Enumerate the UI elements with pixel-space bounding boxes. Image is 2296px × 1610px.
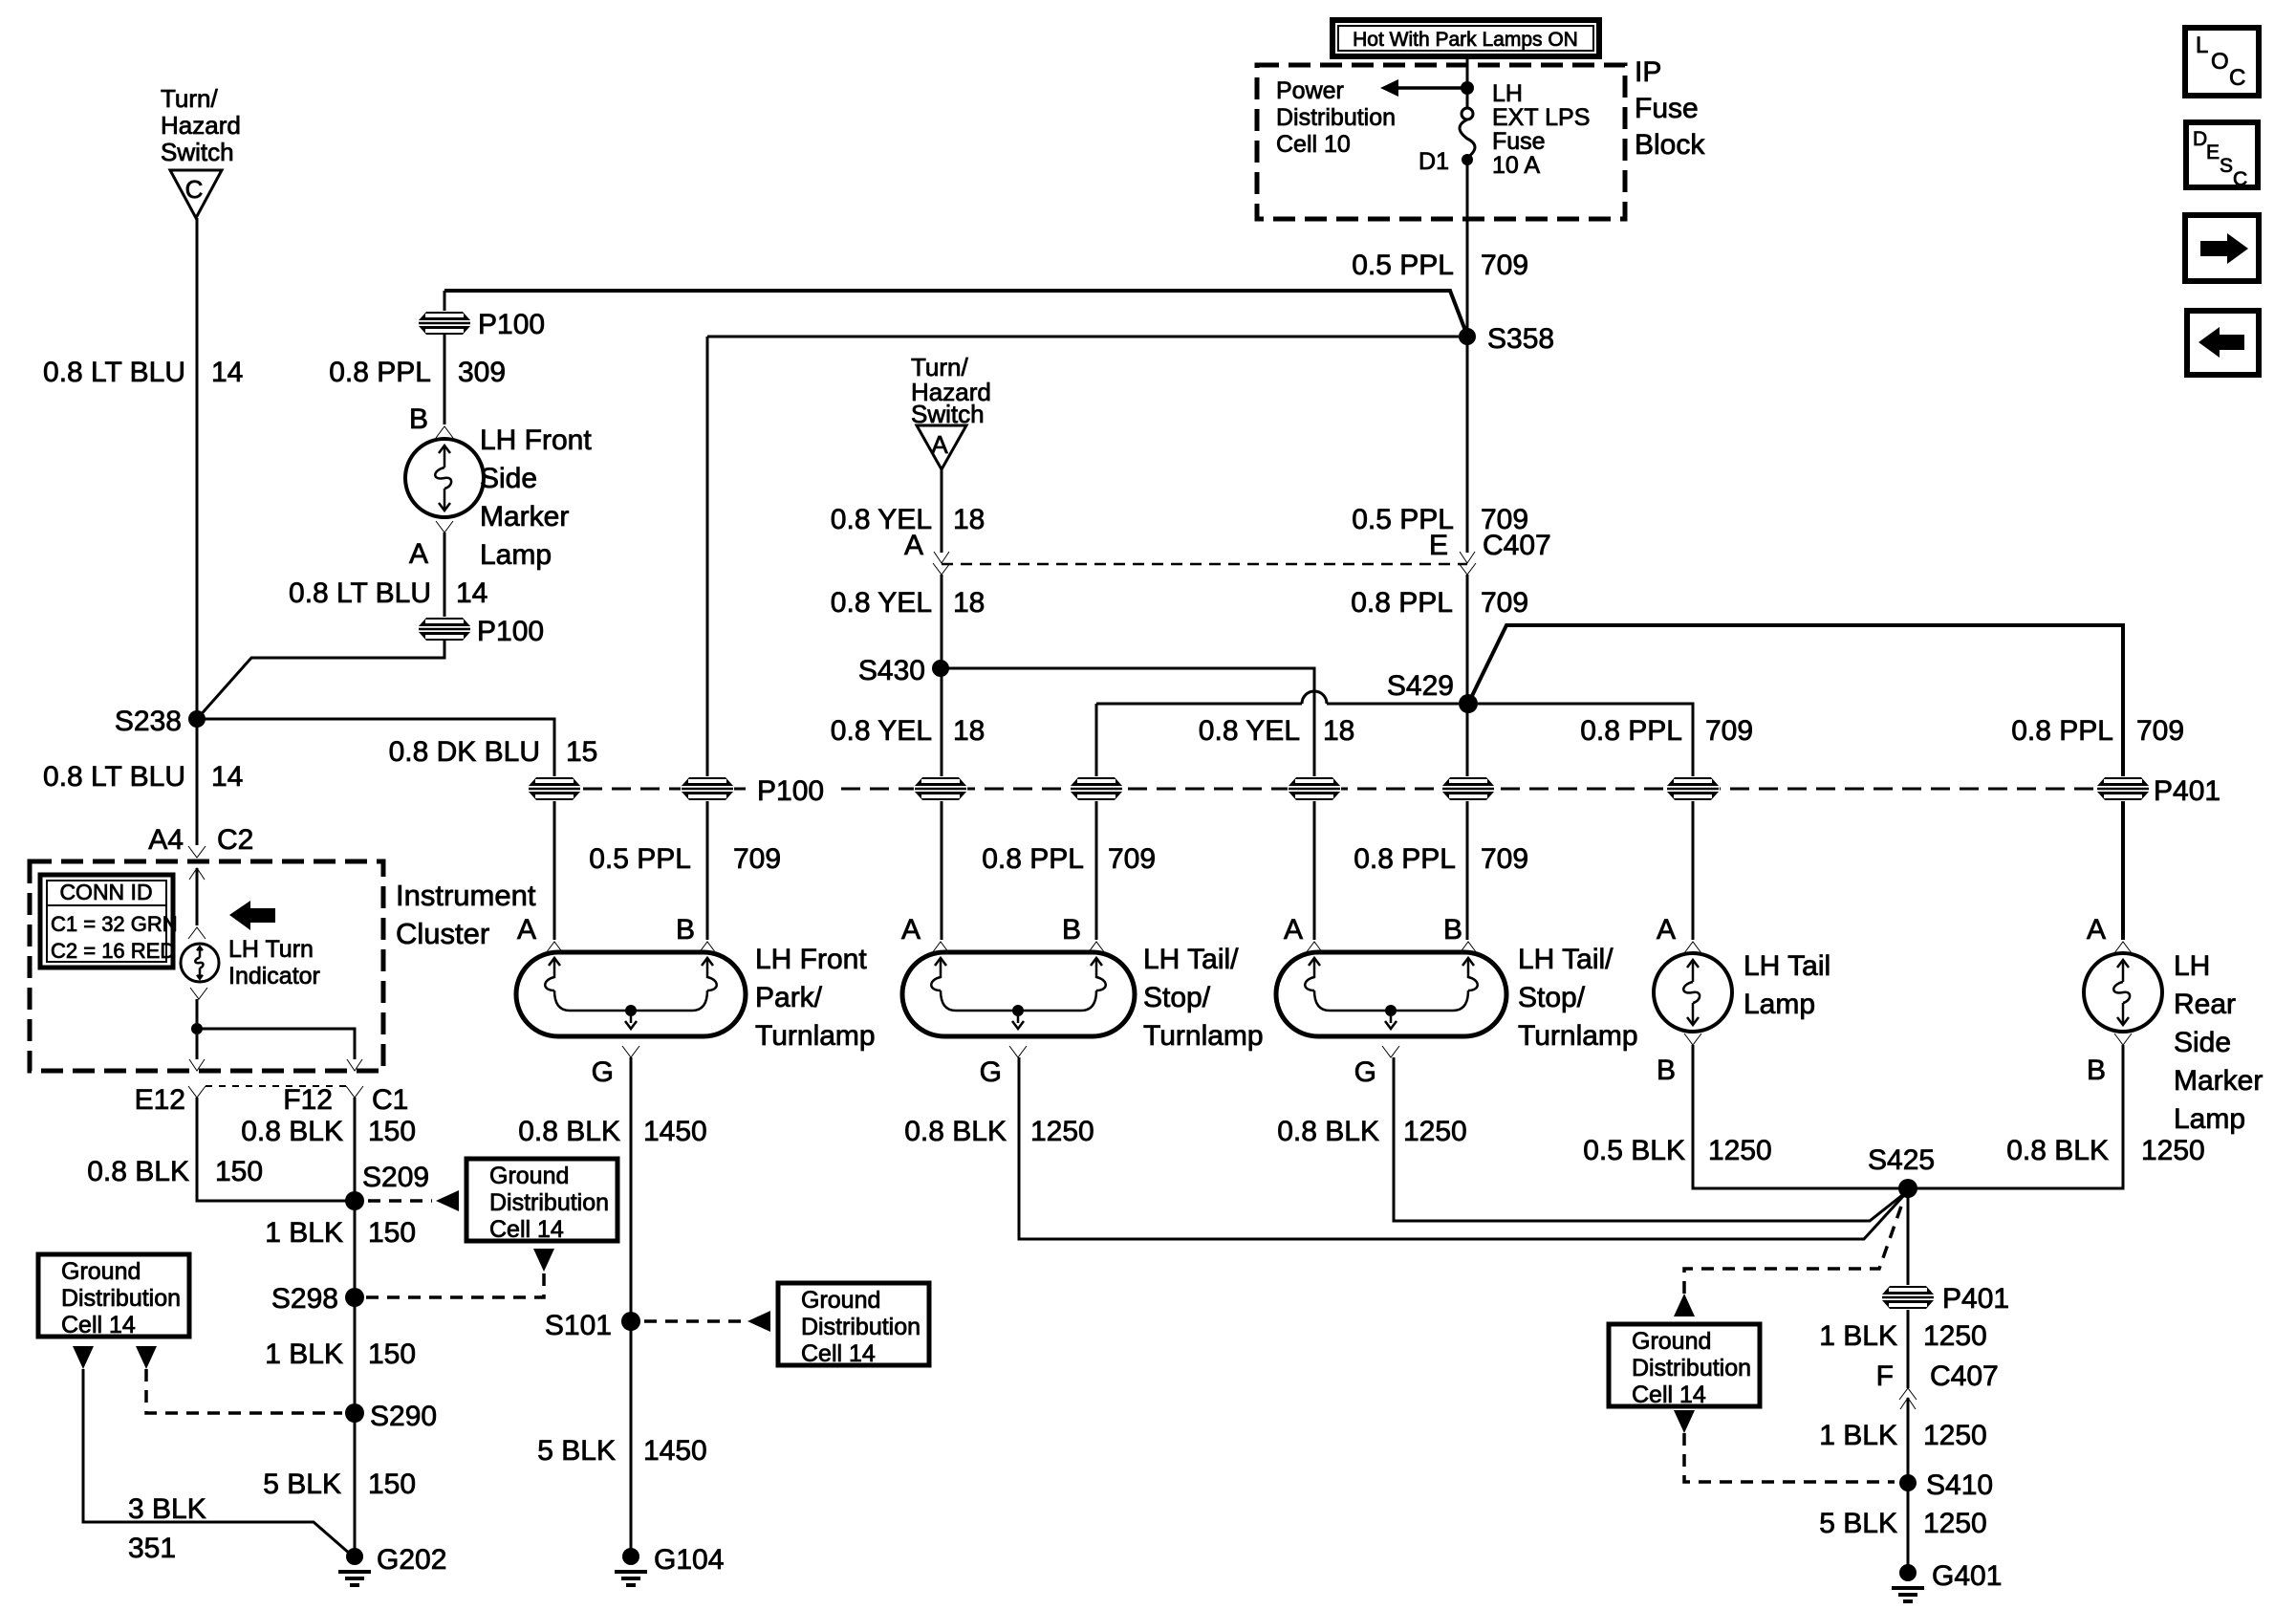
svg-text:D1: D1 xyxy=(1419,148,1449,175)
svg-text:E: E xyxy=(2206,141,2220,163)
label LH Front Park/Turnlamp xyxy=(755,944,876,1052)
svg-text:Cell 14: Cell 14 xyxy=(801,1340,876,1367)
svg-text:Indicator: Indicator xyxy=(228,963,320,990)
label 5 BLK 150 xyxy=(263,1469,416,1500)
node splice S101 xyxy=(621,1312,640,1331)
box Ground Distribution Cell 14 (center) xyxy=(778,1283,929,1367)
svg-text:Stop/: Stop/ xyxy=(1518,982,1586,1013)
connector grommet on YEL wire (lamp2 A) xyxy=(914,776,967,801)
label LH Turn Indicator xyxy=(228,936,320,990)
pin mark above LH Turn Indicator xyxy=(188,927,206,939)
svg-text:1 BLK: 1 BLK xyxy=(1819,1320,1897,1352)
label 0.8 LT BLU 14 (upper) xyxy=(43,357,243,388)
label 0.8 DK BLU 15 xyxy=(389,736,598,768)
svg-text:S209: S209 xyxy=(362,1162,429,1193)
svg-text:Turn/: Turn/ xyxy=(161,84,218,113)
arrow (left, inside cluster) xyxy=(229,901,275,930)
label P100 (on dashed line) xyxy=(753,775,832,807)
svg-text:0.5 PPL: 0.5 PPL xyxy=(589,843,691,875)
svg-text:Distribution: Distribution xyxy=(61,1285,181,1312)
svg-text:Ground: Ground xyxy=(489,1163,569,1189)
svg-text:Cell 10: Cell 10 xyxy=(1276,131,1351,158)
wire 0.8 BLK 1450 from LH Front Park/Turnlamp G to G104 xyxy=(630,1057,633,1556)
component Turn/Hazard Switch terminal A (triangle) xyxy=(917,425,966,469)
svg-text:S: S xyxy=(2220,155,2233,177)
connector C1 (fine dashed line under cluster) xyxy=(206,1085,346,1087)
svg-text:Lamp: Lamp xyxy=(1744,989,1815,1020)
label LH Tail/Stop/Turnlamp (second) xyxy=(1518,944,1638,1052)
label 0.8 YEL 18 (S430 branch lower) xyxy=(831,715,986,747)
svg-text:0.8 LT BLU: 0.8 LT BLU xyxy=(43,357,185,388)
wire 0.5 PPL 709 from S358 to connector C407 pin E xyxy=(1466,337,1469,553)
svg-text:0.5 PPL: 0.5 PPL xyxy=(1352,250,1454,281)
svg-text:S425: S425 xyxy=(1868,1144,1935,1176)
svg-text:B: B xyxy=(676,914,695,946)
label 0.8 BLK 1250 (lamp3 G) xyxy=(1277,1116,1467,1147)
wire 0.8 DK BLU 15 from S238 to LH Front Park/Turnlamp A xyxy=(197,719,554,940)
wire hop over YEL wire (no connection) xyxy=(1302,691,1327,704)
svg-text:150: 150 xyxy=(368,1469,416,1500)
svg-text:B: B xyxy=(1443,914,1462,946)
svg-text:14: 14 xyxy=(211,761,243,793)
svg-text:1250: 1250 xyxy=(2141,1135,2205,1166)
svg-text:150: 150 xyxy=(368,1217,416,1249)
svg-text:LH Turn: LH Turn xyxy=(228,936,314,963)
label LH Tail Lamp xyxy=(1744,950,1830,1020)
wire 0.8 PPL 709 from C407 E to splice S429 xyxy=(1466,575,1469,940)
label 0.5 PPL 709 (lamp1 B) xyxy=(589,843,781,875)
lamp LH Front Side Marker Lamp xyxy=(405,439,484,517)
label 0.8 BLK 150 (E12) xyxy=(87,1156,263,1187)
label 1 BLK 1250 (above C407 F) xyxy=(1819,1320,1986,1352)
svg-text:Cell 14: Cell 14 xyxy=(1632,1382,1706,1408)
node splice S430 xyxy=(932,660,949,677)
connector C407 (dashed in-line connector) xyxy=(942,563,1467,566)
arrow up from right Ground Distribution box to S425 leader xyxy=(1674,1294,1695,1316)
svg-text:14: 14 xyxy=(211,357,243,388)
svg-text:1 BLK: 1 BLK xyxy=(265,1217,343,1249)
wire 0.8 BLK 150 from F12 to S209 xyxy=(354,1098,357,1556)
label LH Tail/Stop/Turnlamp (first) xyxy=(1143,944,1264,1052)
connector P401 grommet on PPL wire (rear marker A) xyxy=(2096,776,2150,801)
svg-text:Marker: Marker xyxy=(480,501,569,533)
svg-text:1 BLK: 1 BLK xyxy=(265,1338,343,1370)
svg-text:Ground: Ground xyxy=(801,1287,880,1314)
leader dashed from box up to S425 xyxy=(1684,1201,1903,1294)
wire 0.8 BLK 150 from E12 to S209 xyxy=(197,1098,346,1201)
svg-text:LH: LH xyxy=(2174,950,2210,982)
svg-text:Hot With Park Lamps ON: Hot With Park Lamps ON xyxy=(1353,29,1578,51)
svg-text:S290: S290 xyxy=(370,1401,437,1432)
svg-text:5 BLK: 5 BLK xyxy=(263,1469,341,1500)
svg-text:Block: Block xyxy=(1635,129,1705,161)
svg-text:Turnlamp: Turnlamp xyxy=(755,1020,876,1052)
svg-text:S430: S430 xyxy=(858,655,925,686)
svg-text:709: 709 xyxy=(733,843,781,875)
label 0.8 PPL 709 (below C407) xyxy=(1351,587,1528,619)
lamp LH Tail/Stop/Turnlamp (first) xyxy=(902,942,1135,1057)
arrow to Power Distribution Cell 10 xyxy=(1380,79,1467,97)
wire 0.8 YEL 18 from C407 A to splice S430 xyxy=(941,575,943,940)
lamp LH Front Park/Turnlamp (dual filament) xyxy=(516,942,746,1057)
svg-text:Cell 14: Cell 14 xyxy=(489,1216,564,1243)
svg-text:P100: P100 xyxy=(478,309,545,340)
svg-text:LH Tail/: LH Tail/ xyxy=(1143,944,1239,975)
svg-text:0.8 DK BLU: 0.8 DK BLU xyxy=(389,736,540,768)
leader dashed from box to S290 xyxy=(146,1369,342,1413)
wire 0.5 PPL 709 from fuse D1 to S358 xyxy=(1466,160,1469,337)
svg-text:A: A xyxy=(904,530,923,561)
svg-text:0.8 LT BLU: 0.8 LT BLU xyxy=(43,761,185,793)
svg-text:G: G xyxy=(592,1056,614,1088)
svg-text:Distribution: Distribution xyxy=(801,1314,921,1340)
pin mark below LH Turn Indicator xyxy=(190,988,207,999)
lamp LH Rear Side Marker Lamp xyxy=(2084,953,2162,1032)
wire 0.8 YEL 18 branch from S430 to LH Tail/Stop/Turnlamp(2) A xyxy=(941,668,1314,940)
svg-text:709: 709 xyxy=(1481,843,1528,875)
svg-text:D: D xyxy=(2193,128,2207,150)
svg-text:F: F xyxy=(1876,1360,1894,1392)
svg-text:B: B xyxy=(1657,1055,1676,1086)
wire 0.5 PPL 709 feeder from S358 to P100 (heavy top line) xyxy=(444,291,1467,336)
svg-text:14: 14 xyxy=(456,577,487,609)
svg-text:C407: C407 xyxy=(1930,1360,1999,1392)
svg-text:1250: 1250 xyxy=(1923,1508,1987,1539)
svg-text:150: 150 xyxy=(215,1156,263,1187)
box Ground Distribution Cell 14 (upper) xyxy=(466,1159,617,1243)
label LH Front Side Marker Lamp xyxy=(480,424,592,571)
label 0.8 PPL 709 (S429 right branch) xyxy=(1580,715,1753,747)
wire 0.8 PPL 709 from S429 diagonal to LH Rear Side Marker A xyxy=(1468,625,2123,940)
svg-text:Side: Side xyxy=(2174,1027,2231,1058)
label 5 BLK 1450 xyxy=(537,1435,706,1467)
component Turn/Hazard Switch terminal C (triangle) xyxy=(170,170,222,218)
wire 1 BLK 1250 from S425 to P401 xyxy=(1907,1188,1910,1388)
connector P401 grommet on ground wire xyxy=(1881,1285,1935,1310)
svg-text:Marker: Marker xyxy=(2174,1065,2263,1097)
label 5 BLK 1250 xyxy=(1819,1508,1986,1539)
svg-text:LH Tail/: LH Tail/ xyxy=(1518,944,1614,975)
label 0.5 PPL 709 (above C407) xyxy=(1352,504,1528,535)
svg-text:P401: P401 xyxy=(1942,1283,2009,1315)
svg-text:0.8 BLK: 0.8 BLK xyxy=(2006,1135,2109,1166)
svg-text:C: C xyxy=(2233,168,2247,190)
arrow to Ground Distribution Cell 14 (S101) xyxy=(747,1311,770,1332)
svg-text:S410: S410 xyxy=(1926,1469,1993,1501)
svg-text:CONN ID: CONN ID xyxy=(59,880,152,904)
pin mark C2/A4 at cluster connector xyxy=(188,846,206,858)
svg-text:C1: C1 xyxy=(372,1084,408,1116)
svg-text:0.8 BLK: 0.8 BLK xyxy=(87,1156,189,1187)
svg-text:0.8 PPL: 0.8 PPL xyxy=(1580,715,1682,747)
label LH EXT LPS Fuse 10 A xyxy=(1492,80,1590,179)
wire 0.5 BLK 1250 from LH Tail Lamp B to S425 and 0.8 BLK 1250 from rear marker B xyxy=(1693,1045,2123,1188)
ground G401 xyxy=(1892,1564,1924,1601)
label 0.8 YEL 18 (middle branch) xyxy=(1199,715,1355,747)
lamp LH Turn Indicator xyxy=(181,944,219,982)
connector P100 (grommet, LH front harness pass-through) xyxy=(418,311,471,336)
wire 0.8 BLK 1250 from lamp2 G to S425 xyxy=(1019,1057,1905,1239)
svg-text:G: G xyxy=(980,1056,1002,1088)
pin mark A (LH Front Side Marker Lamp) xyxy=(436,521,453,533)
box Ground Distribution Cell 14 (left) xyxy=(38,1254,189,1338)
svg-text:Ground: Ground xyxy=(61,1258,141,1285)
svg-text:C: C xyxy=(2229,65,2245,91)
svg-text:18: 18 xyxy=(953,504,985,535)
svg-text:1 BLK: 1 BLK xyxy=(1819,1420,1897,1451)
svg-text:0.8 BLK: 0.8 BLK xyxy=(1277,1116,1379,1147)
pin mark B (LH Tail Lamp) xyxy=(1684,1033,1701,1045)
svg-text:C1 = 32 GRN: C1 = 32 GRN xyxy=(51,912,178,936)
box arrow left (navigation) xyxy=(2187,311,2259,375)
svg-text:709: 709 xyxy=(1108,843,1156,875)
label Turn/Hazard Switch (A) xyxy=(911,353,991,428)
label 0.8 PPL 709 (lamp2 B) xyxy=(982,843,1156,875)
svg-text:18: 18 xyxy=(1323,715,1354,747)
svg-text:P100: P100 xyxy=(757,775,824,807)
wire 0.8 LT BLU 14 from P100 down to splice S238 xyxy=(198,641,444,718)
svg-text:G104: G104 xyxy=(654,1544,724,1576)
label 0.8 LT BLU 14 (marker lamp) xyxy=(289,577,487,609)
svg-text:5 BLK: 5 BLK xyxy=(537,1435,616,1467)
svg-text:5 BLK: 5 BLK xyxy=(1819,1508,1897,1539)
arrow from left Ground Distribution box (S290 leader) xyxy=(136,1346,157,1369)
svg-text:Cluster: Cluster xyxy=(396,917,489,950)
label 0.8 PPL 709 (far right branch) xyxy=(2011,715,2184,747)
wire lamp1 B feeder (0.5 PPL 709) xyxy=(706,337,709,940)
lamp LH Tail/Stop/Turnlamp (second) xyxy=(1276,942,1506,1057)
svg-text:F12: F12 xyxy=(283,1084,333,1116)
label 0.5 BLK 1250 xyxy=(1583,1135,1772,1166)
svg-text:1250: 1250 xyxy=(1403,1116,1467,1147)
label 1 BLK 1250 (below C407 F) xyxy=(1819,1420,1986,1451)
wire 3 BLK 351 to G202 xyxy=(83,1369,351,1555)
svg-text:709: 709 xyxy=(1481,587,1528,619)
label Instrument Cluster xyxy=(396,879,536,950)
wire 0.8 BLK 1250 from lamp3 G to S425 xyxy=(1394,1057,1906,1221)
label 0.8 BLK 150 (F12) xyxy=(241,1116,416,1147)
arrow down from right Ground Distribution box to S410 leader xyxy=(1674,1410,1695,1433)
svg-text:C2 = 16 RED: C2 = 16 RED xyxy=(51,939,175,963)
arrow to Ground Distribution Cell 14 (S209) xyxy=(436,1190,459,1211)
leader dashed from S209 to Ground Distribution box xyxy=(368,1199,432,1203)
svg-text:1250: 1250 xyxy=(1030,1116,1094,1147)
node splice S425 xyxy=(1898,1179,1917,1198)
svg-text:C2: C2 xyxy=(217,824,253,856)
svg-text:A: A xyxy=(901,914,921,946)
pin mark A (LH Rear Side Marker Lamp) xyxy=(2114,942,2132,953)
label 0.8 LT BLU 14 (lower) xyxy=(43,761,243,793)
svg-text:Distribution: Distribution xyxy=(1632,1355,1751,1382)
label IP Fuse Block xyxy=(1635,56,1705,161)
svg-text:P100: P100 xyxy=(477,616,544,647)
wire 1 BLK 1250 from C407 F to S410 xyxy=(1907,1398,1910,1573)
box arrow right (navigation) xyxy=(2185,215,2259,281)
pin mark B (LH Front Side Marker Lamp) xyxy=(436,426,453,438)
pin marks at C407 pin F xyxy=(1899,1388,1917,1400)
svg-text:Distribution: Distribution xyxy=(489,1189,609,1216)
label LH Rear Side Marker Lamp xyxy=(2174,950,2263,1135)
svg-text:Fuse: Fuse xyxy=(1635,93,1699,124)
svg-text:0.8 PPL: 0.8 PPL xyxy=(2011,715,2113,747)
svg-text:IP: IP xyxy=(1635,56,1661,88)
svg-text:18: 18 xyxy=(953,587,985,619)
svg-text:Side: Side xyxy=(480,463,537,494)
arrow from Ground Distribution box down (S298 leader) xyxy=(533,1249,554,1272)
svg-text:709: 709 xyxy=(2136,715,2184,747)
svg-text:Lamp: Lamp xyxy=(2174,1103,2245,1135)
node splice S298 xyxy=(345,1288,364,1307)
node splice S358 xyxy=(1459,328,1476,345)
svg-text:0.8 PPL: 0.8 PPL xyxy=(329,357,431,388)
svg-text:O: O xyxy=(2211,49,2229,75)
wire inside cluster to LH Turn Indicator xyxy=(196,868,199,925)
svg-text:18: 18 xyxy=(953,715,985,747)
pin mark A (LH Tail Lamp) xyxy=(1684,942,1701,953)
svg-text:0.8 YEL: 0.8 YEL xyxy=(831,587,932,619)
label 1 BLK 150 (S209-S298) xyxy=(265,1217,416,1249)
svg-text:Instrument: Instrument xyxy=(396,879,536,912)
svg-text:A: A xyxy=(1284,914,1303,946)
node splice S209 xyxy=(345,1191,364,1210)
wire 0.8 LT BLU 14 from Turn/Hazard Switch C to instrument cluster C2-A4 xyxy=(196,218,199,845)
wire 0.8 PPL 709 from hop to S429 xyxy=(1327,703,1459,706)
connector grommet on DK BLU wire xyxy=(528,776,581,801)
svg-text:0.8 PPL: 0.8 PPL xyxy=(1354,843,1456,875)
svg-text:Cell 14: Cell 14 xyxy=(61,1312,136,1338)
connector grommet on PPL wire (lamp2 B) xyxy=(1070,776,1123,801)
pin mark B (LH Rear Side Marker Lamp) xyxy=(2114,1033,2132,1045)
svg-text:LH Tail: LH Tail xyxy=(1744,950,1830,982)
ground G202 xyxy=(338,1548,371,1585)
svg-text:0.8 BLK: 0.8 BLK xyxy=(518,1116,620,1147)
label 0.5 PPL 709 (below fuse block) xyxy=(1352,250,1528,281)
wire 0.8 PPL 309 from P100 to LH Front Side Marker Lamp pin B xyxy=(444,335,446,424)
pin mark E12 xyxy=(188,1086,206,1098)
svg-text:Switch: Switch xyxy=(161,138,234,166)
svg-text:S101: S101 xyxy=(545,1310,612,1341)
box IP Fuse Block (dashed) xyxy=(1257,65,1625,219)
svg-text:10 A: 10 A xyxy=(1492,152,1540,179)
node splice S290 xyxy=(345,1403,364,1423)
svg-text:Turnlamp: Turnlamp xyxy=(1143,1020,1264,1052)
leader dashed from S101 to Ground Distribution box xyxy=(644,1319,744,1323)
svg-text:S298: S298 xyxy=(271,1283,338,1315)
svg-text:LH: LH xyxy=(1492,80,1523,107)
svg-text:1250: 1250 xyxy=(1708,1135,1772,1166)
svg-text:Stop/: Stop/ xyxy=(1143,982,1211,1013)
label 0.8 BLK 1450 xyxy=(518,1116,707,1147)
box Instrument Cluster (dashed) xyxy=(30,861,383,1071)
connector grommet on YEL wire (lamp3 A) xyxy=(1288,776,1341,801)
wire 0.8 PPL 709 from S429 right to LH Tail Lamp A xyxy=(1478,704,1693,940)
connector grommet on PPL wire (tail lamp A) xyxy=(1666,776,1720,801)
wire 0.8 PPL 709 from left corner down to lamp2 B xyxy=(1095,704,1098,940)
label 0.8 YEL 18 (below C407) xyxy=(831,587,986,619)
svg-text:L: L xyxy=(2196,33,2208,58)
svg-text:C407: C407 xyxy=(1483,530,1551,561)
box CONN ID table xyxy=(40,875,178,968)
arrow from left Ground Distribution box (3 BLK leader) xyxy=(73,1346,94,1369)
svg-text:EXT LPS: EXT LPS xyxy=(1492,104,1590,131)
wire internal branch to F12 xyxy=(197,1029,355,1059)
svg-text:A: A xyxy=(517,914,536,946)
svg-text:309: 309 xyxy=(458,357,506,388)
svg-text:B: B xyxy=(409,403,428,435)
svg-text:B: B xyxy=(2087,1055,2106,1086)
svg-text:A: A xyxy=(409,538,428,570)
svg-text:0.8 YEL: 0.8 YEL xyxy=(1199,715,1300,747)
node splice S429 xyxy=(1459,694,1478,713)
svg-text:Turnlamp: Turnlamp xyxy=(1518,1020,1638,1052)
svg-text:Park/: Park/ xyxy=(755,982,823,1013)
wire 0.8 PPL 709 from S429 left to LH Tail/Stop/Turnlamp(1) B xyxy=(1096,703,1302,706)
svg-text:E12: E12 xyxy=(135,1084,185,1116)
node internal cluster junction xyxy=(191,1023,203,1034)
pin marks at C407 pin E xyxy=(1460,552,1475,563)
svg-text:1450: 1450 xyxy=(643,1435,707,1467)
node junction at fuse top feed xyxy=(1461,81,1474,95)
svg-text:P401: P401 xyxy=(2154,775,2220,807)
box LOC (navigation) xyxy=(2185,28,2259,96)
pin arrow at cluster E12 exit xyxy=(189,1059,205,1071)
node splice S238 xyxy=(188,710,206,728)
svg-text:Fuse: Fuse xyxy=(1492,128,1546,155)
label Turn/Hazard Switch (C) xyxy=(161,84,241,166)
wire 0.8 YEL 18 from Turn/Hazard Switch A to C407 pin A xyxy=(941,469,943,553)
label Power Distribution Cell 10 xyxy=(1276,77,1396,158)
svg-text:0.8 YEL: 0.8 YEL xyxy=(831,715,932,747)
label 0.8 YEL 18 (above C407) xyxy=(831,504,986,535)
svg-text:Power: Power xyxy=(1276,77,1344,104)
svg-text:S238: S238 xyxy=(115,706,182,737)
svg-text:Rear: Rear xyxy=(2174,989,2236,1020)
pin marks at C407 pin A xyxy=(934,552,949,563)
svg-text:1250: 1250 xyxy=(1923,1320,1987,1352)
pin mark F12 xyxy=(346,1086,363,1098)
connector P100 grommet on 0.5 PPL wire xyxy=(681,776,734,801)
svg-text:G202: G202 xyxy=(377,1544,446,1576)
box Ground Distribution Cell 14 (right) xyxy=(1609,1324,1760,1408)
svg-text:150: 150 xyxy=(368,1338,416,1370)
svg-text:E: E xyxy=(1429,530,1448,561)
svg-text:LH Front: LH Front xyxy=(480,424,592,456)
svg-text:0.5 BLK: 0.5 BLK xyxy=(1583,1135,1685,1166)
svg-text:0.8 PPL: 0.8 PPL xyxy=(1351,587,1453,619)
pin arrow at cluster F12 exit xyxy=(347,1059,362,1071)
svg-text:C: C xyxy=(185,175,204,204)
svg-text:LH Front: LH Front xyxy=(755,944,867,975)
box Hot With Park Lamps ON (title) xyxy=(1332,20,1599,56)
svg-text:A4: A4 xyxy=(148,824,184,856)
pin arrow into cluster (A4) xyxy=(189,868,205,880)
label 1 BLK 150 (S298-S290) xyxy=(265,1338,416,1370)
lamp LH Tail Lamp xyxy=(1654,953,1732,1032)
svg-text:Ground: Ground xyxy=(1632,1328,1711,1355)
svg-text:15: 15 xyxy=(566,736,597,768)
svg-text:Distribution: Distribution xyxy=(1276,104,1396,131)
svg-text:0.8 BLK: 0.8 BLK xyxy=(241,1116,343,1147)
wire stub above P100 connector xyxy=(444,291,446,312)
svg-text:S429: S429 xyxy=(1387,670,1454,702)
svg-text:Hazard: Hazard xyxy=(161,111,241,140)
svg-text:150: 150 xyxy=(368,1116,416,1147)
svg-text:0.8 BLK: 0.8 BLK xyxy=(904,1116,1007,1147)
svg-text:709: 709 xyxy=(1481,250,1528,281)
wire from Hot With Park Lamps ON into fuse xyxy=(1466,57,1469,108)
svg-text:B: B xyxy=(1062,914,1081,946)
ground G104 xyxy=(615,1548,647,1585)
